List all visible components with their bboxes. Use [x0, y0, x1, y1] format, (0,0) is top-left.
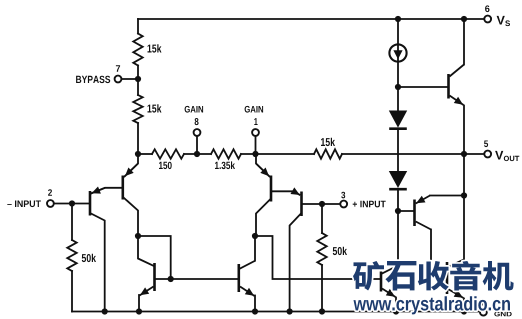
- wire 1.35k to pin1 node: [241, 153, 256, 155]
- label VOUT: [495, 151, 519, 161]
- transistor Q5 base bar (mirror diode-connected NPN): [153, 263, 156, 291]
- label pin number 3: [341, 192, 345, 199]
- resistor 50k right: [317, 233, 326, 265]
- pin 7 BYPASS terminal: [115, 76, 122, 83]
- junction ground output line: [461, 308, 467, 314]
- label pin number 5: [484, 141, 488, 148]
- wire Q5 emitter to ground: [138, 295, 140, 312]
- wire pin7 to bypass node: [122, 78, 139, 80]
- label 50k right: [333, 247, 347, 255]
- wire D2 to node B: [397, 189, 399, 211]
- wire pin2 to Q1 base: [54, 203, 89, 205]
- wire node A to Q8 base: [398, 86, 448, 88]
- pin 8 GAIN terminal: [194, 129, 201, 136]
- junction gain node left: [135, 151, 141, 157]
- label GND: [494, 312, 511, 317]
- wire Q8 emitter to VOUT node: [463, 106, 465, 155]
- watermark chinese character shi: [385, 261, 416, 291]
- pin 3 +INPUT terminal: [340, 201, 347, 208]
- transistor Q1 base bar (input PNP, -input): [89, 191, 92, 216]
- wire Q2 collector down: [124, 198, 139, 237]
- emitter arrow Q1 (PNP): [91, 187, 105, 194]
- transistor Q2 base bar (gain PNP left): [122, 176, 125, 200]
- label GAIN 8: [185, 106, 204, 113]
- junction bypass node: [135, 76, 141, 82]
- junction ground 50k right: [319, 308, 325, 314]
- junction Q9 emitter / output line: [461, 192, 467, 198]
- transistor Q7 base bar (second stage NPN): [380, 272, 383, 292]
- junction mirror base: [168, 276, 174, 282]
- wire Q1 emitter to Q2 base: [91, 188, 121, 194]
- pin 4 GND terminal: [480, 309, 487, 316]
- label 1.35k: [215, 161, 235, 169]
- current source circle: [389, 44, 406, 61]
- wire node B to Q9 base: [398, 210, 414, 212]
- wire 50k right to ground: [321, 265, 323, 312]
- label 50k left: [82, 254, 96, 262]
- wire Q5 collector: [138, 236, 154, 266]
- wire -input node to 50k: [71, 204, 73, 241]
- label VS: [497, 16, 510, 26]
- wire Q3 collector down: [256, 200, 270, 237]
- junction Q2 collector / mirror: [135, 233, 141, 239]
- junction ground Q1 collector: [102, 308, 108, 314]
- label 15k lower: [148, 104, 162, 112]
- diode D1: [389, 111, 407, 129]
- resistor 1.35k: [211, 149, 241, 158]
- current source arrow: [393, 50, 402, 59]
- wire mirror base line: [156, 278, 238, 280]
- wire Q3 emitter from gain node: [256, 154, 270, 177]
- transistor Q6 base bar (mirror output NPN): [238, 264, 241, 292]
- label 150: [159, 162, 172, 169]
- wire node A to diode D1: [397, 87, 399, 111]
- transistor Q8 base bar (top output NPN): [447, 74, 450, 99]
- wire Q7 emitter to ground: [395, 298, 397, 312]
- wire pin8 stem: [196, 136, 198, 154]
- wire bottom ground rail: [72, 311, 480, 313]
- resistor 15k feedback: [314, 149, 342, 158]
- wire Q4 collector to ground: [290, 214, 301, 312]
- emitter arrow Q2 (PNP): [125, 164, 139, 177]
- junction -input node: [69, 200, 75, 206]
- label pin number 2: [48, 189, 52, 196]
- emitter arrow Q8 (NPN): [450, 96, 464, 106]
- wire +input node to 50k: [321, 204, 323, 233]
- watermark chinese character shou: [418, 261, 449, 291]
- junction top rail / Q8 collector: [461, 16, 467, 22]
- wire gain node to 150 resistor: [138, 153, 152, 155]
- collector Q10: [448, 260, 464, 268]
- label BYPASS: [76, 76, 110, 83]
- emitter arrow Q7 (NPN): [382, 289, 396, 298]
- emitter arrow Q4 (PNP): [291, 187, 301, 195]
- label pin number 7: [116, 65, 120, 72]
- wire bypass chain x138 top: [137, 19, 139, 34]
- node A (current source / Q8 base / diodes): [395, 84, 401, 90]
- label 15k feedback: [321, 138, 335, 146]
- junction ground Q6 emitter: [252, 308, 258, 314]
- resistor 15k upper (pin6 to bypass): [133, 34, 142, 66]
- emitter arrow Q10 (NPN): [448, 289, 464, 298]
- watermark chinese character kuang: [353, 261, 384, 291]
- node B (diodes / Q9 base): [395, 208, 401, 214]
- junction top rail / current source: [395, 16, 401, 22]
- wire diff output L to second stage base: [255, 236, 380, 279]
- watermark url www.crystalradio.cn: [354, 296, 511, 314]
- wire bypass node to 15k2: [137, 79, 139, 95]
- diode D2: [389, 171, 407, 189]
- resistor 15k lower (bypass to gain node): [133, 95, 142, 123]
- label GAIN 1: [245, 106, 264, 113]
- transistor Q9 base bar (driver PNP): [413, 200, 416, 227]
- emitter arrow Q6 (NPN): [240, 287, 255, 297]
- wire Q10 emitter to ground: [463, 299, 465, 312]
- wire 50k left to ground rail: [71, 271, 73, 312]
- resistor 50k left: [67, 240, 76, 271]
- junction ground Q4 collector: [287, 308, 293, 314]
- wire 15k2 to gain node: [137, 123, 139, 154]
- wire 150 to pin8 node: [184, 153, 211, 155]
- pin 5 VOUT terminal: [484, 151, 491, 158]
- junction ground Q7 emitter: [393, 308, 399, 314]
- junction ground Q5 emitter: [136, 308, 142, 314]
- wire VS branch vertical x398 through current source: [397, 19, 399, 87]
- label pin number 4: [480, 299, 484, 306]
- wire Q4 base to pin3: [303, 203, 341, 205]
- wire node B down to Q7 collector: [382, 211, 398, 274]
- wire Q2 emitter to gain node: [125, 154, 139, 177]
- emitter arrow Q3 (PNP): [256, 164, 270, 177]
- transistor Q4 base bar (input PNP, +input): [300, 192, 303, 217]
- label pin number 8: [195, 118, 199, 125]
- transistor Q3 base bar (gain PNP right): [270, 176, 273, 202]
- label 15k upper: [148, 44, 162, 52]
- wire Q1 collector to ground: [91, 214, 105, 312]
- junction gain node right (pin1): [252, 151, 258, 157]
- pin 1 GAIN terminal: [252, 129, 259, 136]
- watermark chinese character ji: [483, 261, 514, 291]
- wire VOUT rail left of 15k: [256, 153, 314, 155]
- emitter arrow Q5 (NPN): [140, 287, 154, 296]
- wire 15k1 to bypass node: [137, 66, 139, 80]
- wire top VS rail: [138, 18, 484, 20]
- label pin number 1: [254, 118, 257, 125]
- wire Q9 emitter to output line: [430, 195, 464, 197]
- wire mirror diode connection L: [138, 236, 171, 279]
- label pin number 6: [485, 5, 489, 12]
- wire D1 to D2 (crosses VOUT line): [397, 130, 399, 172]
- pin 2 -INPUT terminal: [47, 200, 54, 207]
- wire Q9 collector to Q10 base: [431, 230, 446, 279]
- wire Q6 collector up: [240, 236, 255, 269]
- junction +input node: [319, 201, 325, 207]
- wire Q6 emitter to ground: [254, 296, 256, 312]
- junction gain node mid (pin8): [194, 151, 200, 157]
- transistor Q10 base bar (bottom output NPN): [446, 262, 449, 294]
- emitter arrow Q9 (PNP): [416, 196, 430, 204]
- wire VOUT rail right of 15k: [342, 153, 484, 155]
- wire pin1 stem: [255, 136, 257, 154]
- collector Q8: [450, 65, 465, 77]
- collector Q9: [416, 222, 431, 230]
- label +INPUT: [353, 201, 386, 208]
- watermark chinese character yin: [450, 261, 481, 291]
- pin 6 VS terminal: [484, 16, 491, 23]
- resistor 150: [152, 149, 184, 158]
- label -INPUT: [7, 201, 41, 208]
- wire output line VOUT to Q10 collector: [463, 154, 465, 260]
- wire Q8 collector to top rail: [463, 19, 465, 65]
- junction VOUT node: [461, 151, 467, 157]
- wire Q3 base to Q4 emitter: [273, 190, 294, 192]
- junction Q3 collector / diff output: [252, 233, 258, 239]
